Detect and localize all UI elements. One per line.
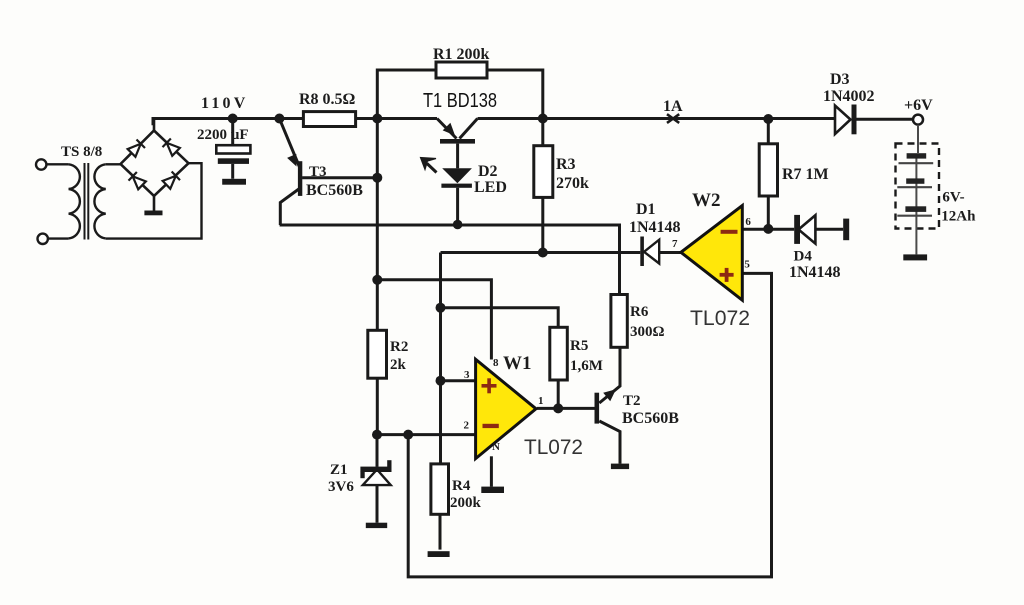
svg-text:8: 8: [493, 357, 499, 369]
svg-text:T3: T3: [309, 164, 327, 180]
svg-text:2: 2: [464, 420, 470, 432]
svg-text:W2: W2: [692, 190, 721, 211]
svg-text:D4: D4: [794, 249, 813, 265]
svg-text:D1: D1: [636, 201, 656, 218]
svg-text:1N4148: 1N4148: [789, 264, 841, 281]
svg-text:Z1: Z1: [330, 462, 348, 478]
svg-text:R7 1M: R7 1M: [782, 166, 829, 183]
svg-text:1,6M: 1,6M: [570, 358, 603, 374]
svg-text:1: 1: [538, 395, 544, 407]
svg-text:R3: R3: [556, 156, 576, 173]
svg-text:N: N: [492, 441, 500, 453]
svg-text:R4: R4: [452, 478, 471, 494]
svg-text:270k: 270k: [556, 175, 589, 192]
svg-text:200k: 200k: [450, 495, 482, 511]
svg-text:1N4148: 1N4148: [629, 219, 681, 236]
svg-text:2200 µF: 2200 µF: [197, 127, 249, 143]
svg-text:12Ah: 12Ah: [941, 209, 976, 225]
svg-text:R1 200k: R1 200k: [433, 46, 490, 63]
svg-text:TL072: TL072: [690, 307, 750, 330]
svg-text:+6V: +6V: [904, 97, 933, 114]
svg-text:5: 5: [744, 259, 750, 271]
svg-text:300Ω: 300Ω: [630, 324, 665, 340]
svg-text:D2: D2: [478, 163, 498, 180]
svg-text:BC560B: BC560B: [622, 410, 679, 427]
svg-text:3V6: 3V6: [328, 479, 354, 495]
svg-text:W1: W1: [503, 353, 532, 374]
svg-text:110V: 110V: [201, 95, 248, 112]
svg-text:3: 3: [464, 369, 470, 381]
svg-text:R2: R2: [390, 339, 408, 355]
svg-text:6: 6: [745, 216, 751, 228]
svg-text:BC560B: BC560B: [306, 182, 363, 199]
svg-text:T1 BD138: T1 BD138: [423, 90, 497, 112]
svg-text:7: 7: [672, 238, 678, 250]
svg-text:D3: D3: [830, 71, 850, 88]
svg-text:R8 0.5Ω: R8 0.5Ω: [299, 91, 356, 108]
svg-text:TS 8/8: TS 8/8: [61, 144, 102, 160]
svg-text:6V-: 6V-: [942, 190, 964, 206]
svg-text:TL072: TL072: [524, 436, 583, 459]
svg-text:T2: T2: [623, 393, 641, 409]
svg-text:2k: 2k: [390, 357, 407, 373]
svg-text:1N4002: 1N4002: [823, 88, 875, 105]
svg-text:LED: LED: [474, 179, 507, 196]
svg-text:R5: R5: [570, 338, 588, 354]
svg-text:1A: 1A: [663, 98, 683, 115]
svg-text:R6: R6: [630, 304, 649, 320]
